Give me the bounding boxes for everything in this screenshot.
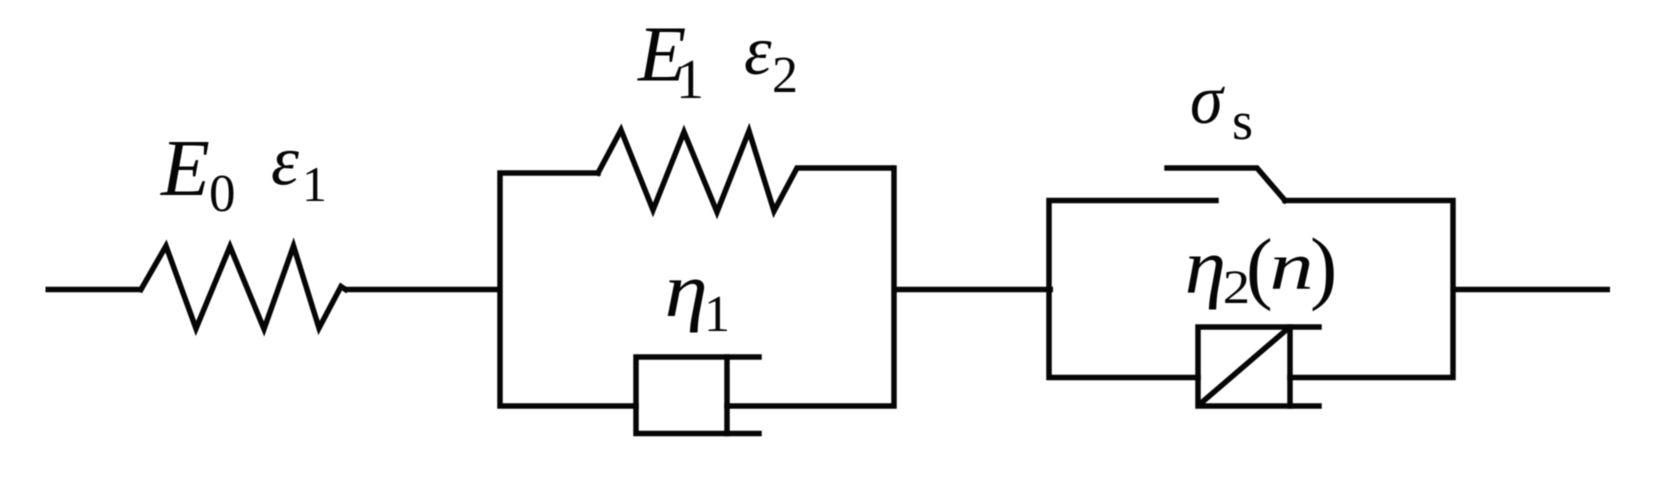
svg-text:): ) [1310,221,1337,312]
dashpot eta2 cylinder (open right) [1198,327,1319,406]
svg-text:1: 1 [302,156,327,212]
svg-text:s: s [1232,91,1253,151]
svg-text:0: 0 [209,165,236,223]
spring E1 (top branch of Kelvin element, zigzag) [598,130,891,212]
svg-text:σ: σ [1190,60,1225,138]
svg-text:ε: ε [271,123,299,201]
node: Kelvin box right wall with rod of dashpot (bottom-right branch) [727,168,894,406]
friction slider (switch arm) sigma_s [1167,168,1285,201]
node: right group left wall, top-left and bottom-left branches [1049,201,1216,378]
dashpot eta1 piston plate [724,357,730,434]
svg-text:E: E [160,125,210,213]
wire spring E0 to Kelvin box [345,287,500,293]
svg-text:1: 1 [704,286,730,343]
svg-text:n: n [1270,229,1314,304]
node: Kelvin box left wall with top stub and bottom-left branch [500,173,636,406]
node: right group right wall with top-right branch and rod of dashpot eta2 [1285,201,1453,378]
svg-text:η: η [665,248,708,333]
dashpot eta2 piston plate [1287,327,1293,406]
wire right output lead [1453,287,1610,293]
dashpot eta1 cylinder (open right) [636,357,759,434]
dashpot eta2 diagonal (viscoplastic stroke) [1200,329,1288,405]
svg-text:ε: ε [744,13,772,90]
svg-text:η: η [1185,224,1226,310]
wire left input lead [46,287,142,293]
spring E0 (elastic element, zigzag) [141,246,346,329]
svg-text:1: 1 [676,49,704,111]
wire Kelvin box to right group [894,287,1053,293]
svg-text:2: 2 [772,47,798,104]
